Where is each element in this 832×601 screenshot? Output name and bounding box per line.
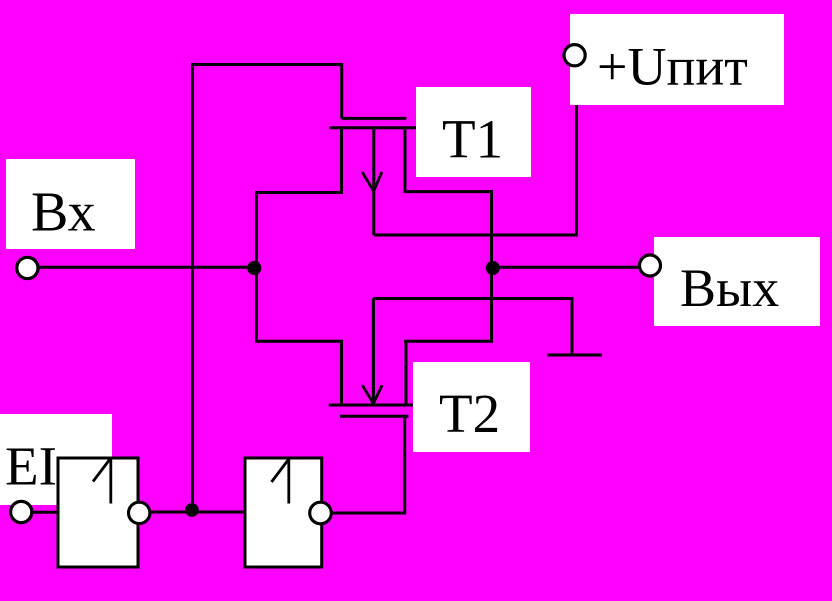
label box +Uпит — [570, 14, 784, 105]
terminal +Uпит — [564, 45, 585, 66]
wire T2 drain to output rail — [404, 340, 493, 343]
terminal EI input — [11, 501, 32, 522]
label box Вых — [654, 237, 820, 326]
label box Вх — [6, 159, 135, 249]
svg-text:Вх: Вх — [31, 182, 96, 244]
wire T1 substrate to +U supply — [374, 66, 577, 235]
transistor T2 — [329, 299, 418, 417]
wire top gate feed — [191, 65, 342, 119]
inverter U1 — [58, 458, 150, 567]
label box T1 — [416, 87, 531, 177]
ground — [548, 299, 603, 357]
svg-text:EI: EI — [5, 436, 57, 497]
wire T1 drain to output rail — [404, 192, 492, 343]
svg-text:Т1: Т1 — [442, 109, 503, 170]
wire inverter 2 to T2 gate — [332, 416, 405, 513]
svg-text:Вых: Вых — [680, 258, 779, 318]
junction inverter midpoint — [185, 503, 199, 517]
wire output horizontal — [493, 266, 641, 269]
wire T2 substrate to ground — [373, 297, 573, 300]
svg-text:+Uпит: +Uпит — [597, 37, 748, 97]
wire inverter 1 to inverter 2 — [150, 511, 247, 514]
label box EI — [0, 414, 112, 505]
label box T2 — [413, 362, 530, 452]
transistor T1 — [330, 118, 417, 235]
junction output node — [486, 261, 500, 275]
wire EI to inverter 1 — [32, 511, 59, 514]
inverter U2 — [245, 458, 331, 567]
terminal Вх input — [17, 257, 38, 278]
wire input horizontal — [38, 266, 257, 269]
junction input node — [247, 261, 261, 275]
wire long vertical rail to inverter midpoint — [191, 63, 194, 510]
svg-text:Т2: Т2 — [439, 383, 500, 444]
terminal Вых output — [640, 255, 661, 276]
wire input-side rail — [257, 193, 344, 342]
